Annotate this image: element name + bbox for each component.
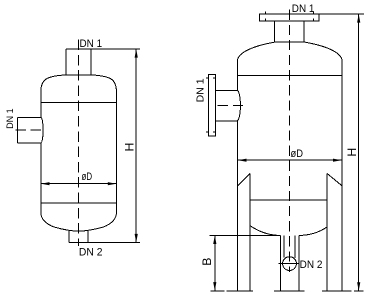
svg-text:DN 1: DN 1 (80, 38, 103, 50)
svg-text:B: B (200, 258, 214, 266)
svg-text:DN 1: DN 1 (292, 3, 315, 15)
svg-text:DN 1: DN 1 (5, 108, 15, 129)
svg-text:H: H (123, 143, 137, 152)
svg-text:øD: øD (291, 148, 304, 160)
svg-text:DN 2: DN 2 (300, 259, 323, 271)
svg-text:øD: øD (82, 171, 93, 183)
svg-text:DN 1: DN 1 (195, 78, 207, 102)
svg-text:DN 2: DN 2 (79, 247, 103, 259)
svg-text:H: H (345, 148, 359, 157)
